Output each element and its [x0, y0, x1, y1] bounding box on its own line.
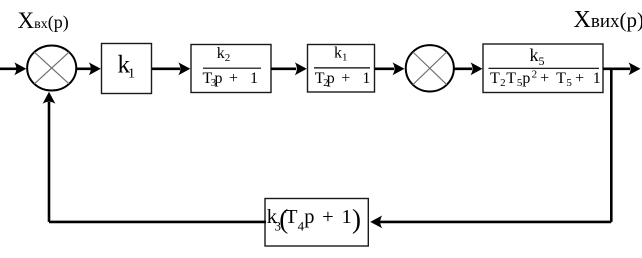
wire: output — [603, 62, 641, 75]
node: takeoff point — [610, 68, 613, 222]
block W5 feedback: k3(T4p+1) — [265, 199, 368, 247]
wire: S1 to k1 — [77, 62, 101, 75]
block W2: k2/(T3p+1) — [191, 45, 271, 93]
block W3: k1/(T2p+1) — [308, 45, 375, 93]
wire: S2 to W4 — [455, 62, 483, 75]
svg-text:T2p+1: T2p+1 — [315, 70, 371, 89]
label X_bx(p) input — [18, 8, 69, 33]
wire: W3 to S2 — [375, 62, 405, 75]
summing junction S1 — [27, 45, 76, 90]
wire: feedback left segment — [43, 92, 266, 222]
block k1 — [102, 44, 152, 94]
wire: k1 to W2 — [152, 62, 190, 75]
svg-text:p + 1: p + 1 — [304, 206, 353, 228]
svg-text:T2T5p2+T5+1: T2T5p2+T5+1 — [490, 69, 601, 90]
wire: W2 to W3 — [271, 62, 307, 75]
block W4: k5/(T2T5p^2+T5+1) — [483, 44, 603, 93]
label X_bux(p) output — [574, 7, 642, 33]
wire: input — [0, 62, 26, 75]
svg-text:Хвих(р): Хвих(р) — [574, 7, 642, 33]
svg-text:T: T — [285, 206, 298, 228]
wire: feedback right segment — [370, 216, 611, 229]
svg-text:T3p+1: T3p+1 — [203, 70, 259, 89]
svg-text:): ) — [352, 204, 361, 234]
summing junction S2 — [406, 45, 454, 91]
